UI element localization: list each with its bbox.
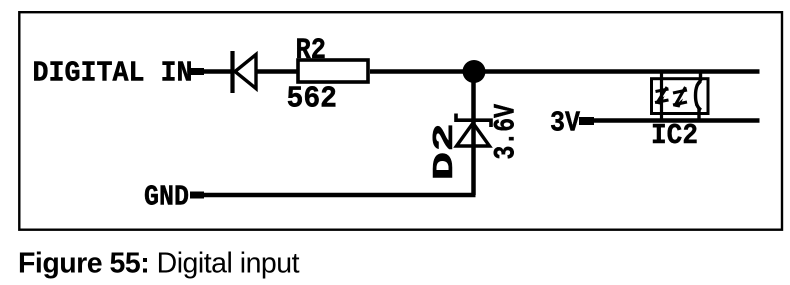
- wire: [474, 69, 760, 74]
- wire: [256, 69, 297, 74]
- svg-text:R2: R2: [296, 33, 327, 67]
- resistor R2: [298, 60, 368, 82]
- wire: [370, 69, 474, 74]
- svg-text:3.6V: 3.6V: [490, 104, 524, 160]
- pin stub GND: [190, 192, 204, 199]
- svg-text:D2: D2: [428, 123, 461, 181]
- svg-text:3V: 3V: [550, 107, 581, 140]
- svg-text:GND: GND: [144, 181, 189, 214]
- zener diode D2: [456, 114, 491, 147]
- optocoupler IC2: [652, 72, 709, 121]
- junction node: [463, 60, 486, 83]
- wire: [594, 118, 760, 123]
- svg-text:562: 562: [287, 83, 338, 117]
- svg-text:Figure 55: Digital input: Figure 55: Digital input: [18, 248, 300, 280]
- wire: [471, 72, 476, 196]
- svg-text:IC2: IC2: [651, 119, 698, 152]
- pin stub DIGITAL IN: [189, 68, 204, 75]
- diode D1: [233, 51, 257, 93]
- wire: [203, 69, 231, 74]
- wire: [204, 193, 476, 198]
- pin stub 3V: [579, 117, 594, 125]
- svg-text:DIGITAL IN: DIGITAL IN: [33, 57, 193, 90]
